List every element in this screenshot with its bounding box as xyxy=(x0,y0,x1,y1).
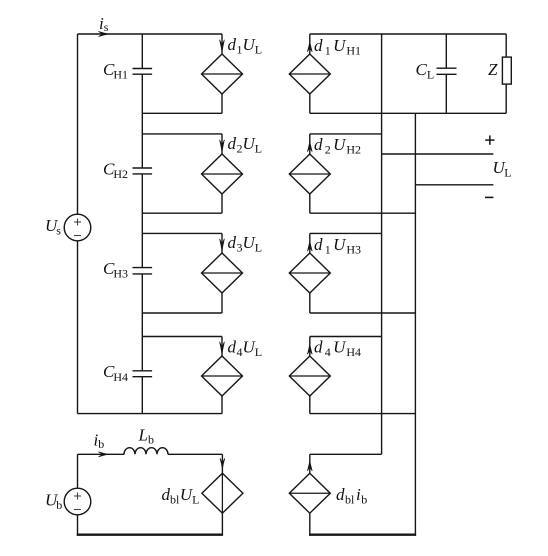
dependent source d1UL diamond xyxy=(202,34,243,113)
wire: main top wire left section xyxy=(78,33,223,35)
svg-text:is: is xyxy=(99,14,109,34)
wire: bus1 to dbl_ib horizontal xyxy=(310,453,382,455)
svg-text:d4UL: d4UL xyxy=(228,337,263,359)
dependent source d4UL diamond xyxy=(202,337,243,414)
svg-text:d1UH1: d1UH1 xyxy=(314,36,361,58)
wire: dblib bottom wire (thick) xyxy=(309,534,416,536)
svg-text:CH2: CH2 xyxy=(103,159,128,181)
dependent source d4UH4 diamond xyxy=(289,337,330,414)
capacitor C_L xyxy=(437,34,457,113)
wire: U_b left vertical upper xyxy=(77,454,79,488)
dependent source d2UL diamond xyxy=(202,134,243,213)
wire: middle block 3 bottom wire xyxy=(310,312,416,314)
svg-text:d3UL: d3UL xyxy=(228,233,263,255)
svg-text:d2UL: d2UL xyxy=(228,134,263,156)
wire: bottom loop top wire left segment xyxy=(78,453,125,455)
wire: middle block 3 top wire xyxy=(310,232,382,234)
wire: left block bottom wire xyxy=(78,413,223,415)
svg-text:d1UL: d1UL xyxy=(228,35,263,57)
current arrow i_s xyxy=(99,32,109,37)
wire: left block 3 top wire xyxy=(142,232,222,234)
wire: top-right block bottom wire xyxy=(310,112,506,114)
wire: left block 2 top wire xyxy=(142,133,222,135)
wire: middle block 4 top wire xyxy=(310,336,382,338)
label output plus xyxy=(485,135,494,144)
wire: left edge vertical upper (to U_s top) xyxy=(77,34,79,214)
wire: middle block 2 top wire xyxy=(310,133,382,135)
svg-text:UL: UL xyxy=(493,158,512,180)
capacitor C_H2 xyxy=(133,168,153,174)
svg-text:Ub: Ub xyxy=(45,491,62,513)
svg-text:dblib: dblib xyxy=(336,485,367,507)
svg-text:CH3: CH3 xyxy=(103,259,128,281)
wire: output minus terminal line xyxy=(415,184,493,186)
capacitor C_H1 xyxy=(133,69,153,75)
wire: output plus terminal line xyxy=(382,153,494,155)
current arrow i_b xyxy=(99,452,109,457)
dependent source dblib diamond xyxy=(289,454,330,536)
voltage source U_b xyxy=(64,488,91,515)
wire: bus 2 vertical xyxy=(414,113,416,536)
svg-text:d1UH3: d1UH3 xyxy=(314,235,361,257)
wire: U_b loop bottom wire (thick) xyxy=(77,534,223,536)
wire: left block 4 top wire xyxy=(142,336,222,338)
capacitor C_H4 xyxy=(133,371,153,377)
wire: middle block 2 bottom wire xyxy=(310,212,416,214)
impedance Z xyxy=(502,34,511,113)
wire: bus 1 vertical xyxy=(381,34,383,454)
voltage source U_s xyxy=(64,214,91,241)
wire: left edge vertical lower (U_s to bottom) xyxy=(77,241,79,414)
label output minus xyxy=(485,196,493,198)
wire: middle top wire (top-right block) xyxy=(310,33,506,35)
svg-text:d4UH4: d4UH4 xyxy=(314,338,361,360)
wire: U_b left vertical lower xyxy=(77,515,79,536)
wire: left block 3 bottom wire xyxy=(142,312,222,314)
svg-text:d2UH2: d2UH2 xyxy=(314,135,361,157)
svg-text:ib: ib xyxy=(94,431,105,451)
dependent source d1UH1 diamond xyxy=(289,34,330,113)
svg-text:Z: Z xyxy=(488,60,498,79)
dependent source dblUL diamond xyxy=(202,454,243,536)
inductor L_b xyxy=(124,448,168,455)
dependent source d2UH2 diamond xyxy=(289,134,330,213)
svg-text:Us: Us xyxy=(45,216,61,238)
dependent source d1UH3 diamond xyxy=(289,233,330,313)
capacitor C_H3 xyxy=(133,268,153,274)
svg-text:dblUL: dblUL xyxy=(162,485,200,507)
svg-text:CH1: CH1 xyxy=(103,60,128,82)
wire: middle block 4 bottom wire xyxy=(310,413,416,415)
svg-text:CL: CL xyxy=(416,60,435,82)
wire: capacitor column vertical segments xyxy=(141,34,143,414)
wire: bottom loop top wire right segment xyxy=(168,453,223,455)
dependent source d3UL diamond xyxy=(202,233,243,313)
svg-text:CH4: CH4 xyxy=(103,362,128,384)
wire: left block 2 bottom wire xyxy=(142,212,222,214)
svg-text:Lb: Lb xyxy=(138,426,154,447)
wire: left block 1 bottom wire xyxy=(142,112,222,114)
